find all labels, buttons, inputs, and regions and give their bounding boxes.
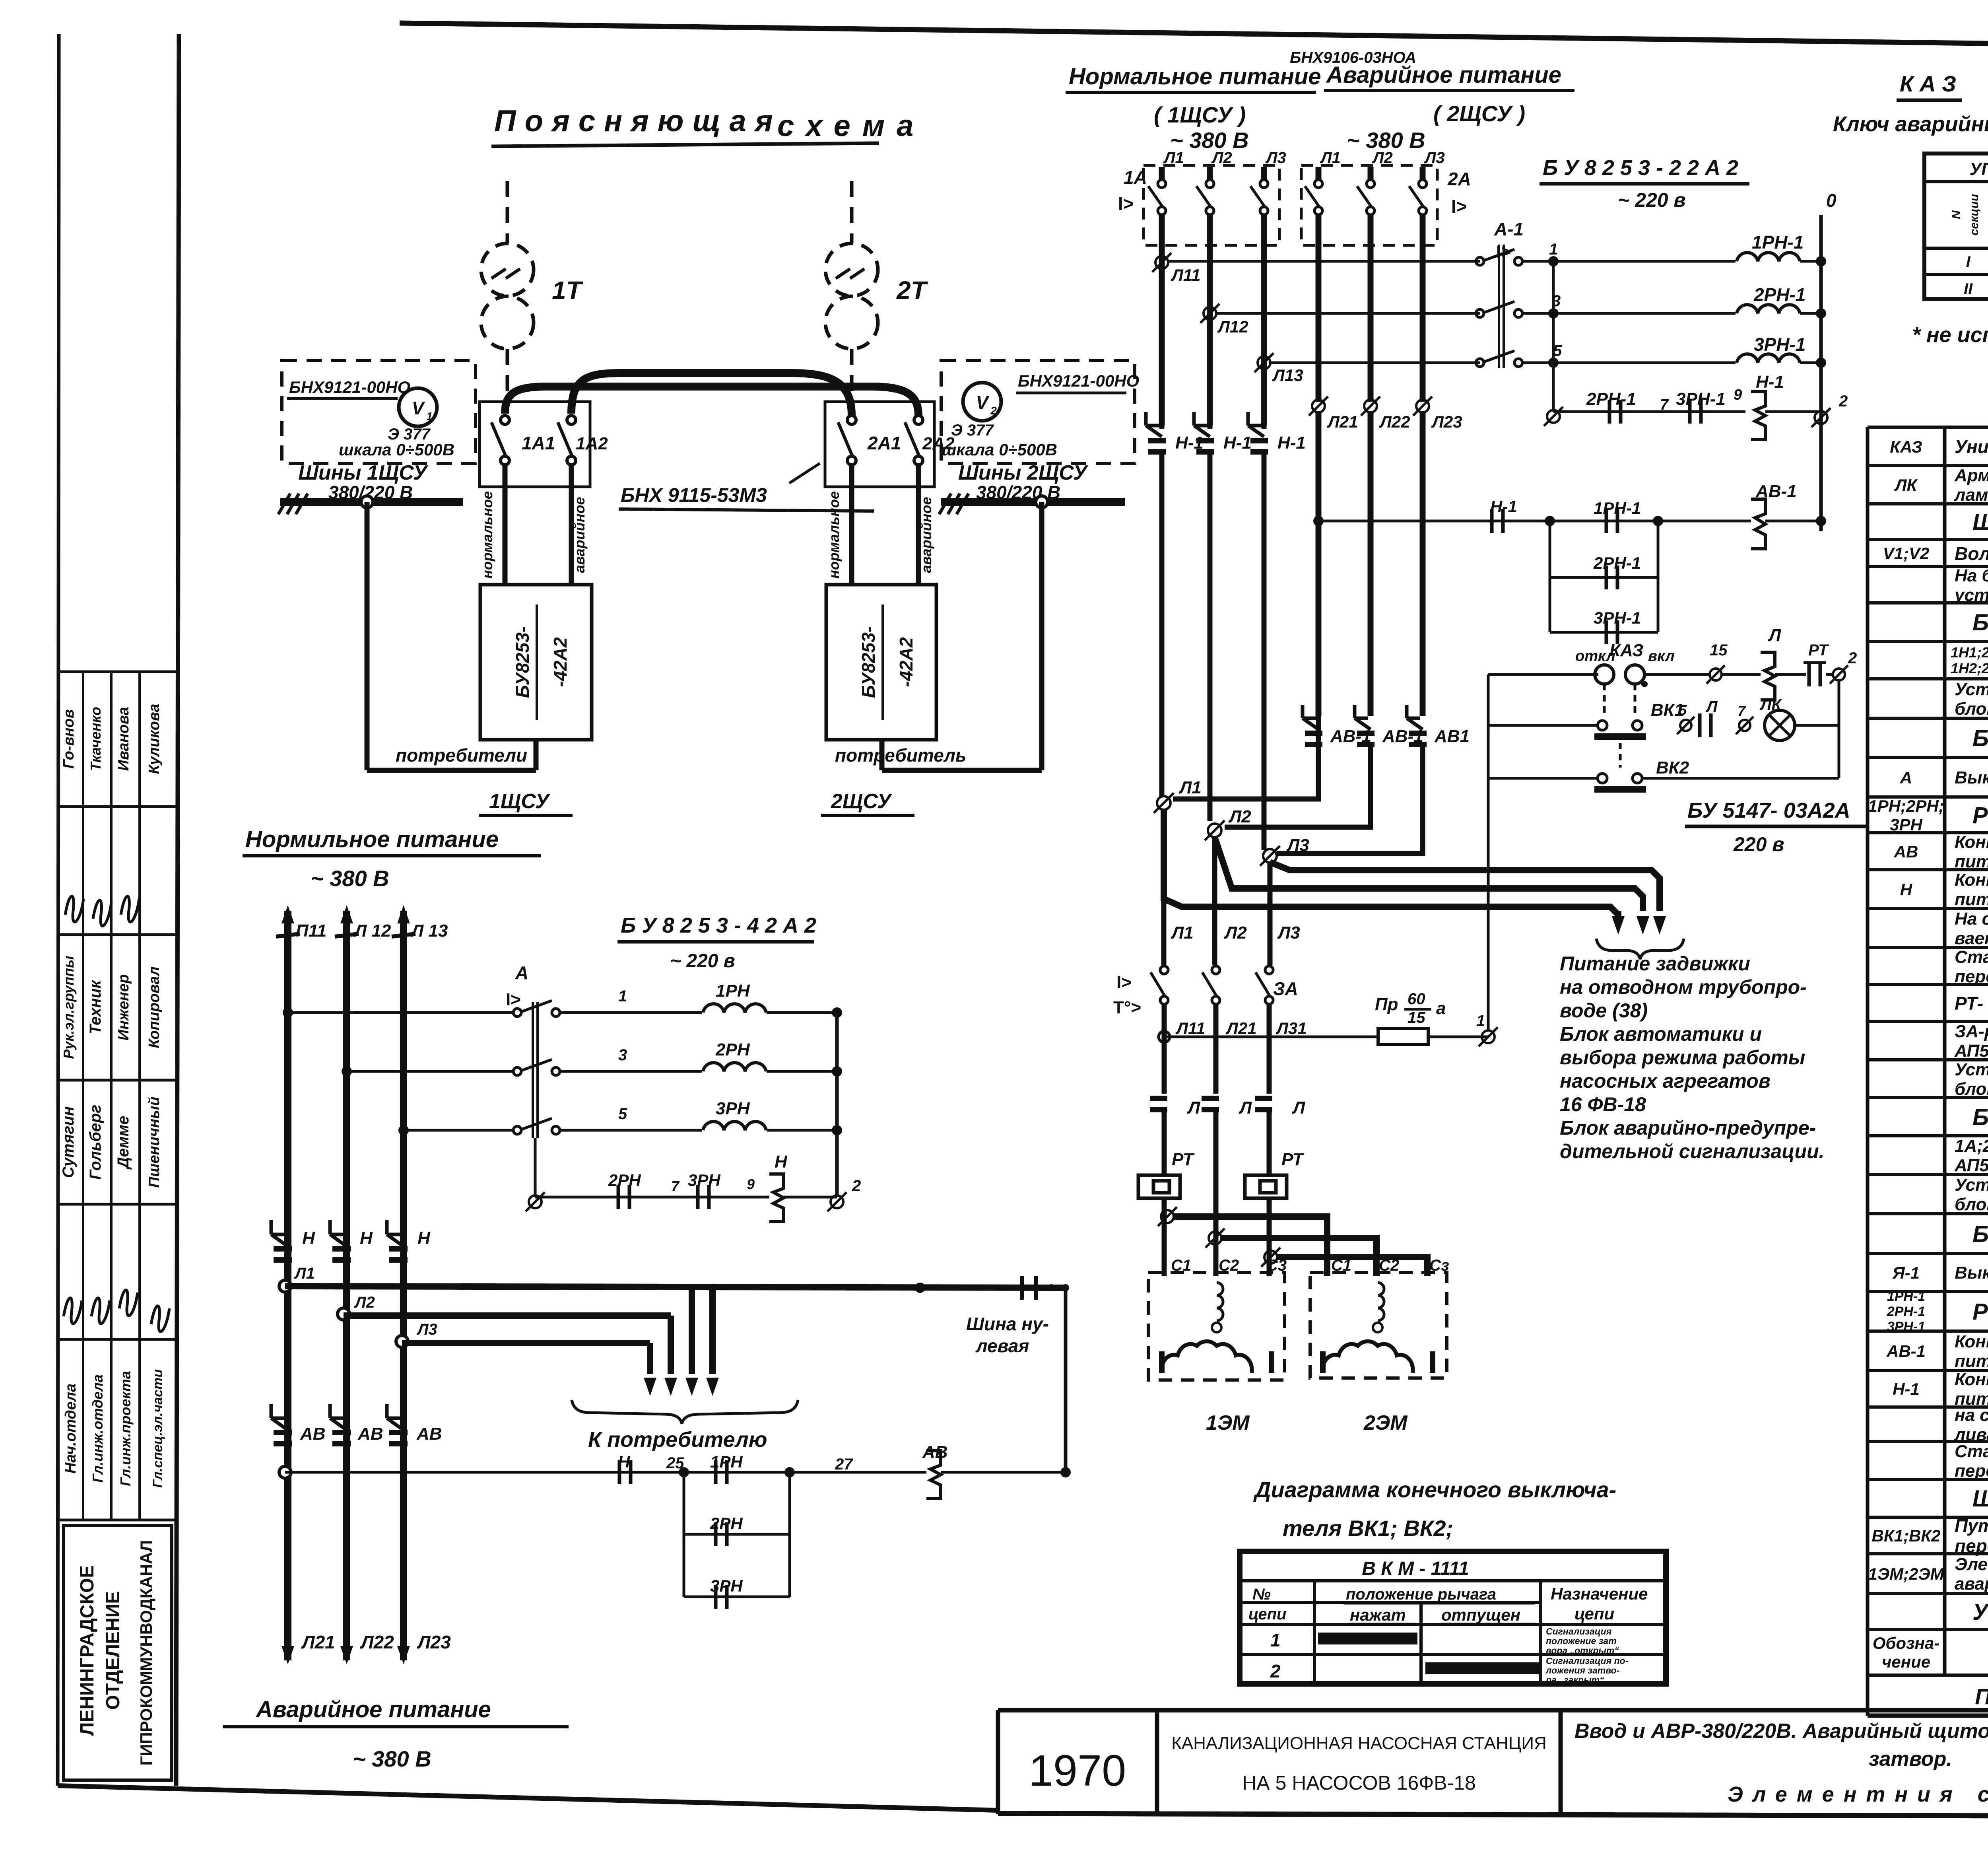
svg-text:БНХ9121-00НО: БНХ9121-00НО bbox=[289, 378, 410, 397]
svg-text:2: 2 bbox=[990, 404, 997, 417]
svg-text:РТ- Реле тепловые: РТ- Реле тепловые bbox=[1955, 993, 1988, 1014]
svg-text:Л21: Л21 bbox=[1225, 1019, 1257, 1038]
svg-text:1: 1 bbox=[426, 410, 433, 422]
svg-text:Универсальный переключатель: Универсальный переключатель bbox=[1955, 436, 1988, 457]
svg-text:вора „открыт“: вора „открыт“ bbox=[1546, 1645, 1619, 1656]
svg-text:1: 1 bbox=[618, 987, 627, 1005]
svg-text:ВК1;ВК2: ВК1;ВК2 bbox=[1872, 1526, 1940, 1545]
svg-text:Арматура для сигнальной: Арматура для сигнальной bbox=[1954, 466, 1988, 485]
svg-text:схема: схема bbox=[777, 109, 925, 143]
svg-text:1ЭМ;2ЭМ: 1ЭМ;2ЭМ bbox=[1868, 1565, 1944, 1583]
svg-text:* не используется: * не используется bbox=[1912, 323, 1988, 347]
svg-text:2: 2 bbox=[1848, 649, 1857, 667]
svg-text:Путевой малогабаритный: Путевой малогабаритный bbox=[1955, 1515, 1988, 1536]
svg-text:АВ: АВ bbox=[300, 1424, 326, 1444]
svg-text:В К М - 1111: В К М - 1111 bbox=[1362, 1558, 1469, 1579]
svg-text:потребитель: потребитель bbox=[835, 745, 966, 766]
svg-text:Л1: Л1 bbox=[1171, 923, 1194, 943]
svg-text:1Т: 1Т bbox=[552, 276, 584, 305]
svg-text:Щит управления: Щит управления bbox=[1972, 509, 1988, 535]
svg-text:ОТДЕЛЕНИЕ: ОТДЕЛЕНИЕ bbox=[103, 1591, 124, 1710]
svg-text:питания: питания bbox=[1955, 1351, 1988, 1371]
svg-text:лампы: лампы bbox=[1954, 485, 1988, 505]
svg-text:Блок управления: Блок управления bbox=[1972, 1221, 1988, 1247]
svg-text:Л23: Л23 bbox=[417, 1632, 451, 1652]
svg-text:потребители: потребители bbox=[396, 745, 527, 766]
svg-text:нажат: нажат bbox=[1350, 1605, 1406, 1624]
svg-text:Л2: Л2 bbox=[1228, 807, 1251, 826]
svg-text:ГИПРОКОММУНВОДКАНАЛ: ГИПРОКОММУНВОДКАНАЛ bbox=[137, 1540, 155, 1766]
svg-text:( 2ЩСУ ): ( 2ЩСУ ) bbox=[1433, 101, 1525, 126]
svg-text:вкл: вкл bbox=[1648, 648, 1675, 665]
svg-text:Рук.эл.группы: Рук.эл.группы bbox=[60, 956, 77, 1059]
svg-text:аварийное: аварийное bbox=[571, 497, 588, 573]
svg-text:положение рычага: положение рычага bbox=[1346, 1586, 1496, 1603]
svg-text:Вольтметр: Вольтметр bbox=[1955, 543, 1988, 564]
svg-text:Л1: Л1 bbox=[1163, 149, 1184, 167]
svg-text:БУ8253-: БУ8253- bbox=[512, 626, 533, 698]
svg-text:На блоке управления: На блоке управления bbox=[1955, 566, 1988, 585]
svg-text:Л22: Л22 bbox=[1379, 412, 1410, 431]
svg-text:Контактор аварийного: Контактор аварийного bbox=[1955, 832, 1988, 852]
svg-text:Уставки аппаратов на: Уставки аппаратов на bbox=[1955, 1060, 1988, 1079]
svg-text:АВ: АВ bbox=[416, 1424, 442, 1444]
svg-text:Л: Л bbox=[1292, 1098, 1305, 1118]
svg-text:Шина ну-: Шина ну- bbox=[966, 1314, 1049, 1334]
svg-text:Н-1: Н-1 bbox=[1223, 433, 1252, 453]
svg-text:Электромагнит. удержания: Электромагнит. удержания bbox=[1955, 1555, 1988, 1574]
svg-text:1ЭМ: 1ЭМ bbox=[1206, 1411, 1250, 1434]
svg-text:Уставки аппаратов на: Уставки аппаратов на bbox=[1955, 1175, 1988, 1195]
svg-text:АВ: АВ bbox=[1894, 842, 1918, 861]
svg-text:Н: Н bbox=[360, 1228, 373, 1248]
svg-text:РТ: РТ bbox=[1808, 641, 1829, 659]
svg-text:Л21: Л21 bbox=[301, 1632, 335, 1652]
svg-text:I: I bbox=[1966, 253, 1971, 271]
svg-text:-42А2: -42А2 bbox=[550, 637, 571, 687]
svg-text:Б У 8 2 5 3 - 2 2 А 2: Б У 8 2 5 3 - 2 2 А 2 bbox=[1543, 156, 1738, 180]
svg-text:Перечень электрооборудования: Перечень электрооборудования bbox=[1975, 1684, 1988, 1709]
svg-text:Сигнализация: Сигнализация bbox=[1546, 1626, 1612, 1637]
svg-text:~ 220 в: ~ 220 в bbox=[1618, 189, 1686, 211]
svg-text:I>: I> bbox=[1116, 973, 1132, 992]
svg-text:Шины 1ЩСУ: Шины 1ЩСУ bbox=[298, 461, 429, 484]
svg-text:Шины 2ЩСУ: Шины 2ЩСУ bbox=[958, 461, 1089, 484]
svg-text:А: А bbox=[515, 962, 528, 983]
svg-text:Поясняющая: Поясняющая bbox=[494, 104, 782, 138]
svg-text:I>: I> bbox=[506, 990, 521, 1009]
svg-text:Го-внов: Го-внов bbox=[60, 709, 77, 768]
svg-text:Уставки аппаратов на: Уставки аппаратов на bbox=[1955, 680, 1988, 699]
svg-text:на отводном трубопро-: на отводном трубопро- bbox=[1560, 976, 1807, 998]
svg-text:~ 380 В: ~ 380 В bbox=[353, 1746, 431, 1771]
svg-text:устанавливается:: устанавливается: bbox=[1954, 585, 1988, 605]
svg-text:5: 5 bbox=[1679, 702, 1687, 718]
svg-text:220 в: 220 в bbox=[1733, 833, 1784, 855]
svg-text:Блок аварийно-предупре-: Блок аварийно-предупре- bbox=[1560, 1117, 1816, 1139]
svg-text:Т°>: Т°> bbox=[1113, 998, 1141, 1017]
svg-text:БНХ9121-00НО: БНХ9121-00НО bbox=[1018, 371, 1139, 390]
svg-text:Л12: Л12 bbox=[1217, 317, 1248, 336]
svg-text:Сутягин: Сутягин bbox=[60, 1106, 77, 1178]
svg-text:а: а bbox=[1436, 999, 1446, 1018]
svg-text:Станция автоматического: Станция автоматического bbox=[1955, 947, 1988, 967]
svg-text:1970: 1970 bbox=[1029, 1746, 1126, 1795]
svg-text:Л1: Л1 bbox=[1320, 149, 1341, 167]
svg-text:9: 9 bbox=[747, 1176, 755, 1192]
svg-text:ЗА: ЗА bbox=[1273, 978, 1298, 999]
svg-text:ложения затво-: ложения затво- bbox=[1545, 1665, 1619, 1675]
svg-text:Ткаченко: Ткаченко bbox=[87, 707, 104, 771]
svg-text:блоке управления: блоке управления bbox=[1955, 1079, 1988, 1099]
svg-text:питания: питания bbox=[1955, 852, 1988, 871]
svg-text:АП50-3МТ: АП50-3МТ bbox=[1954, 1041, 1988, 1061]
svg-text:ВК2: ВК2 bbox=[1656, 758, 1689, 777]
svg-text:Станция автоматического: Станция автоматического bbox=[1955, 1442, 1988, 1461]
svg-text:II: II bbox=[1964, 280, 1973, 298]
svg-text:3РН: 3РН bbox=[688, 1171, 721, 1190]
svg-text:Демме: Демме bbox=[115, 1116, 132, 1170]
svg-text:Обозна-: Обозна- bbox=[1873, 1634, 1939, 1652]
svg-text:3РН: 3РН bbox=[1890, 815, 1923, 834]
svg-text:1А: 1А bbox=[1124, 167, 1147, 188]
svg-text:теля ВК1; ВК2;: теля ВК1; ВК2; bbox=[1283, 1516, 1453, 1541]
svg-text:Л2: Л2 bbox=[1224, 923, 1247, 943]
svg-text:15: 15 bbox=[1408, 1009, 1425, 1026]
svg-text:2РН-1: 2РН-1 bbox=[1887, 1304, 1925, 1319]
svg-text:1Н1;2Н1 Расцеп.абтомата А-3144: 1Н1;2Н1 Расцеп.абтомата А-3144 bbox=[1951, 644, 1988, 661]
svg-text:2РН: 2РН bbox=[608, 1171, 641, 1190]
svg-text:2А1: 2А1 bbox=[867, 433, 901, 453]
svg-text:ЗА-расцепитель автомата: ЗА-расцепитель автомата bbox=[1955, 1022, 1988, 1041]
svg-text:РТ: РТ bbox=[1281, 1150, 1305, 1169]
svg-text:А-1: А-1 bbox=[1494, 219, 1524, 239]
svg-text:V: V bbox=[412, 398, 425, 418]
svg-text:2ЩСУ: 2ЩСУ bbox=[831, 790, 893, 813]
svg-text:шкала 0÷500В: шкала 0÷500В bbox=[339, 440, 454, 459]
svg-text:насосных агрегатов: насосных агрегатов bbox=[1560, 1070, 1771, 1092]
svg-text:Н: Н bbox=[417, 1228, 431, 1248]
svg-text:2А2: 2А2 bbox=[922, 434, 955, 453]
svg-text:Л23: Л23 bbox=[1431, 412, 1462, 431]
svg-text:питания: питания bbox=[1955, 890, 1988, 909]
svg-text:Щит станции управления: Щит станции управления bbox=[1972, 1486, 1988, 1512]
svg-text:ЛК: ЛК bbox=[1894, 476, 1918, 494]
svg-text:Блок управления: Блок управления bbox=[1972, 1104, 1988, 1130]
svg-text:Пшеничный: Пшеничный bbox=[146, 1096, 163, 1188]
svg-text:Блок управления: Блок управления bbox=[1972, 725, 1988, 751]
svg-text:Н: Н bbox=[302, 1228, 315, 1248]
svg-text:Аварийное питание: Аварийное питание bbox=[255, 1697, 491, 1722]
svg-text:Контактор нормального: Контактор нормального bbox=[1955, 870, 1988, 890]
svg-text:П11: П11 bbox=[296, 921, 326, 941]
svg-text:Техник: Техник bbox=[87, 980, 104, 1034]
svg-text:V: V bbox=[976, 392, 990, 413]
svg-text:2Т: 2Т bbox=[896, 276, 928, 305]
svg-text:аварийных затворов: аварийных затворов bbox=[1955, 1574, 1988, 1594]
svg-text:7: 7 bbox=[1660, 397, 1669, 413]
svg-text:Гл.спец.эл.части: Гл.спец.эл.части bbox=[150, 1369, 165, 1488]
svg-text:Л21: Л21 bbox=[1327, 412, 1358, 431]
svg-text:1РН-1: 1РН-1 bbox=[1887, 1289, 1925, 1304]
svg-text:I>: I> bbox=[1451, 196, 1467, 217]
svg-text:нормальное: нормальное bbox=[826, 491, 842, 579]
svg-text:3: 3 bbox=[618, 1046, 627, 1064]
svg-text:Л1: Л1 bbox=[294, 1265, 315, 1282]
svg-text:К А З: К А З bbox=[1900, 71, 1956, 96]
svg-text:выбора режима работы: выбора режима работы bbox=[1560, 1046, 1805, 1069]
svg-text:60: 60 bbox=[1408, 990, 1425, 1008]
svg-text:блоке управления:: блоке управления: bbox=[1955, 699, 1988, 719]
svg-text:АВ-1: АВ-1 bbox=[1886, 1342, 1926, 1361]
svg-text:У механизма: У механизма bbox=[1972, 1599, 1988, 1625]
svg-text:аварийное: аварийное bbox=[918, 497, 934, 573]
svg-text:АВ1: АВ1 bbox=[1434, 727, 1470, 746]
svg-text:3РН: 3РН bbox=[716, 1099, 750, 1118]
svg-text:дительной сигнализации.: дительной сигнализации. bbox=[1560, 1140, 1825, 1162]
svg-text:Л3: Л3 bbox=[1277, 923, 1300, 943]
svg-text:Блок управления: Блок управления bbox=[1972, 610, 1988, 636]
svg-text:V1;V2: V1;V2 bbox=[1883, 544, 1930, 563]
svg-text:блоке управления: блоке управления bbox=[1955, 1195, 1988, 1214]
svg-text:Л11: Л11 bbox=[1175, 1019, 1205, 1038]
svg-text:Н: Н bbox=[775, 1152, 788, 1172]
svg-text:воде (38): воде (38) bbox=[1560, 999, 1648, 1022]
svg-text:9: 9 bbox=[1734, 387, 1742, 403]
svg-text:Нач.отдела: Нач.отдела bbox=[62, 1384, 79, 1473]
svg-text:1А2: 1А2 bbox=[576, 434, 608, 453]
svg-text:Л13: Л13 bbox=[1272, 366, 1303, 385]
svg-text:Л: Л bbox=[1239, 1098, 1252, 1118]
svg-text:I>: I> bbox=[1118, 193, 1134, 214]
svg-text:переключения на резерв: переключения на резерв bbox=[1955, 1461, 1988, 1481]
svg-text:2: 2 bbox=[1839, 393, 1848, 410]
svg-text:шкала 0÷500В: шкала 0÷500В bbox=[942, 440, 1057, 459]
svg-text:КАЗ: КАЗ bbox=[1890, 437, 1922, 456]
svg-text:Л3: Л3 bbox=[416, 1321, 437, 1338]
svg-text:Реле нулевое: Реле нулевое bbox=[1972, 803, 1988, 828]
svg-text:2РН-1: 2РН-1 bbox=[1753, 284, 1806, 305]
svg-text:Л 13: Л 13 bbox=[410, 921, 448, 941]
svg-text:секции: секции bbox=[1968, 194, 1981, 236]
svg-text:1РН;2РН;: 1РН;2РН; bbox=[1868, 797, 1944, 815]
svg-text:вается:: вается: bbox=[1955, 929, 1988, 948]
svg-text:15: 15 bbox=[1710, 641, 1728, 659]
svg-text:КАНАЛИЗАЦИОННАЯ НАСОСНАЯ СТА: КАНАЛИЗАЦИОННАЯ НАСОСНАЯ СТАНЦИЯ bbox=[1171, 1734, 1547, 1753]
svg-text:-42А2: -42А2 bbox=[896, 637, 916, 687]
svg-text:Иванова: Иванова bbox=[115, 707, 132, 771]
svg-text:Н-1: Н-1 bbox=[1893, 1380, 1920, 1398]
svg-text:АП50-3МТ: АП50-3МТ bbox=[1954, 1156, 1988, 1175]
svg-text:Инженер: Инженер bbox=[115, 974, 132, 1041]
svg-text:27: 27 bbox=[835, 1456, 853, 1473]
svg-text:Контактор нормального: Контактор нормального bbox=[1955, 1370, 1988, 1389]
svg-text:Э 377: Э 377 bbox=[951, 422, 994, 439]
svg-text:Л3: Л3 bbox=[1424, 149, 1445, 167]
svg-text:РТ: РТ bbox=[1172, 1150, 1195, 1169]
svg-text:3РН-1: 3РН-1 bbox=[1754, 334, 1806, 355]
svg-text:1ЩСУ: 1ЩСУ bbox=[489, 790, 551, 813]
svg-text:1: 1 bbox=[1270, 1630, 1281, 1650]
svg-text:Л1: Л1 bbox=[1178, 778, 1202, 797]
svg-text:3РН-1: 3РН-1 bbox=[1887, 1319, 1925, 1334]
svg-text:переключатель: переключатель bbox=[1955, 1536, 1988, 1556]
svg-text:Пр: Пр bbox=[1375, 995, 1398, 1014]
svg-text:БНХ 9115-53М3: БНХ 9115-53М3 bbox=[621, 484, 767, 506]
svg-text:N: N bbox=[1950, 210, 1963, 219]
svg-text:ЛЕНИНГРАДСКОЕ: ЛЕНИНГРАДСКОЕ bbox=[77, 1565, 98, 1736]
svg-text:2РН: 2РН bbox=[715, 1040, 750, 1059]
svg-text:2: 2 bbox=[1270, 1661, 1281, 1681]
svg-text:Л3: Л3 bbox=[1286, 836, 1309, 855]
svg-text:левая: левая bbox=[975, 1335, 1029, 1356]
svg-text:1РН-1: 1РН-1 bbox=[1752, 232, 1804, 253]
svg-text:Ввод и АВР-380/220В. Аварийн: Ввод и АВР-380/220В. Аварийный щитовой bbox=[1574, 1720, 1988, 1743]
svg-text:Л2: Л2 bbox=[1372, 149, 1393, 167]
svg-text:Копировал: Копировал bbox=[146, 966, 163, 1048]
svg-text:7: 7 bbox=[671, 1178, 680, 1194]
svg-text:отпущен: отпущен bbox=[1441, 1605, 1520, 1624]
svg-text:2А: 2А bbox=[1447, 169, 1471, 189]
svg-text:Л31: Л31 bbox=[1276, 1019, 1307, 1038]
svg-text:Л: Л bbox=[1768, 626, 1781, 645]
svg-text:5: 5 bbox=[618, 1105, 627, 1123]
svg-text:Назначение: Назначение bbox=[1551, 1584, 1648, 1603]
svg-text:К потребителю: К потребителю bbox=[588, 1428, 767, 1452]
svg-text:0: 0 bbox=[1826, 190, 1837, 211]
svg-text:2: 2 bbox=[852, 1177, 861, 1195]
svg-text:№: № bbox=[1252, 1586, 1271, 1603]
svg-text:1А1: 1А1 bbox=[522, 433, 555, 453]
svg-text:Нормильное питание: Нормильное питание bbox=[245, 826, 499, 852]
svg-text:1: 1 bbox=[1549, 241, 1558, 258]
svg-text:Л3: Л3 bbox=[1265, 149, 1286, 167]
svg-text:Б У 8 2 5 3 - 4 2 А 2: Б У 8 2 5 3 - 4 2 А 2 bbox=[621, 914, 816, 937]
svg-text:Элементния схема: Элементния схема bbox=[1728, 1782, 1988, 1806]
svg-text:БНХ9106-03НОА: БНХ9106-03НОА bbox=[1290, 49, 1416, 66]
svg-text:Выключатель автоматический: Выключатель автоматический bbox=[1955, 1263, 1988, 1283]
svg-text:Реле нулевое: Реле нулевое bbox=[1972, 1299, 1988, 1325]
svg-text:~ 220 в: ~ 220 в bbox=[670, 950, 735, 972]
svg-text:Гл.инж.проекта: Гл.инж.проекта bbox=[117, 1371, 134, 1486]
svg-text:Нормальное питание: Нормальное питание bbox=[1069, 64, 1321, 89]
svg-text:Н: Н bbox=[1900, 880, 1913, 899]
svg-text:на станции устанав-: на станции устанав- bbox=[1955, 1405, 1988, 1425]
svg-text:Я-1: Я-1 bbox=[1892, 1263, 1920, 1282]
svg-text:1Н2;2Н2 Расцеп.абтомата А-3134: 1Н2;2Н2 Расцеп.абтомата А-3134 bbox=[1951, 660, 1988, 676]
svg-text:А: А bbox=[1900, 768, 1912, 787]
svg-text:ра „закрыт“: ра „закрыт“ bbox=[1545, 1675, 1604, 1685]
svg-text:Диаграмма конечного выключа-: Диаграмма конечного выключа- bbox=[1253, 1477, 1616, 1502]
svg-text:Блок автоматики и: Блок автоматики и bbox=[1560, 1023, 1762, 1045]
svg-text:Гл.инж.отдела: Гл.инж.отдела bbox=[89, 1374, 106, 1483]
svg-text:Гольберг: Гольберг bbox=[87, 1105, 104, 1180]
svg-text:Л2: Л2 bbox=[1211, 149, 1232, 167]
svg-text:1: 1 bbox=[1476, 1012, 1485, 1030]
svg-text:Питание задвижки: Питание задвижки bbox=[1560, 952, 1750, 975]
svg-text:цепи: цепи bbox=[1574, 1604, 1614, 1623]
svg-text:переключения на резерв: переключения на резерв bbox=[1955, 967, 1988, 986]
svg-text:положение зат: положение зат bbox=[1546, 1636, 1617, 1646]
svg-text:Л: Л bbox=[1187, 1098, 1200, 1118]
svg-text:16 ФВ-18: 16 ФВ-18 bbox=[1560, 1093, 1646, 1116]
svg-text:Л11: Л11 bbox=[1171, 266, 1200, 284]
svg-text:затвор.: затвор. bbox=[1869, 1747, 1952, 1771]
svg-text:Куликова: Куликова bbox=[146, 704, 163, 774]
svg-text:БУ8253-: БУ8253- bbox=[858, 626, 879, 698]
svg-text:АВ: АВ bbox=[357, 1424, 383, 1444]
svg-text:Н-1: Н-1 bbox=[1277, 433, 1306, 453]
svg-text:Л: Л bbox=[1705, 698, 1718, 715]
svg-text:цепи: цепи bbox=[1248, 1605, 1286, 1623]
svg-text:Л2: Л2 bbox=[354, 1294, 375, 1311]
svg-text:На станции устанавли-: На станции устанавли- bbox=[1955, 909, 1988, 929]
svg-text:1РН: 1РН bbox=[716, 981, 750, 1001]
svg-text:Ключ аварийных затворов: Ключ аварийных затворов bbox=[1833, 112, 1988, 136]
svg-text:( 1ЩСУ ): ( 1ЩСУ ) bbox=[1154, 102, 1246, 127]
svg-text:Контактор аварийного: Контактор аварийного bbox=[1955, 1332, 1988, 1351]
svg-text:1А;2А;Расцепитель автомата: 1А;2А;Расцепитель автомата bbox=[1955, 1136, 1988, 1156]
svg-text:нормальное: нормальное bbox=[479, 491, 495, 579]
svg-text:Н-1: Н-1 bbox=[1756, 372, 1784, 392]
svg-text:Л 12: Л 12 bbox=[353, 921, 391, 941]
svg-text:2ЭМ: 2ЭМ bbox=[1363, 1411, 1408, 1434]
svg-text:Сигнализация по-: Сигнализация по- bbox=[1546, 1656, 1628, 1666]
svg-text:Л22: Л22 bbox=[360, 1632, 394, 1652]
svg-text:БУ 5147- 03А2А: БУ 5147- 03А2А bbox=[1687, 799, 1850, 822]
svg-text:НА 5 НАСОСОВ 16ФВ-18: НА 5 НАСОСОВ 16ФВ-18 bbox=[1242, 1772, 1476, 1794]
svg-text:чение: чение bbox=[1882, 1652, 1930, 1671]
svg-text:КАЗ: КАЗ bbox=[1609, 641, 1643, 660]
svg-text:7: 7 bbox=[1738, 703, 1746, 719]
svg-text:~ 380 В: ~ 380 В bbox=[311, 866, 389, 891]
svg-text:Выключить автоматический: Выключить автоматический bbox=[1955, 768, 1988, 787]
svg-text:УП5311- И3: УП5311- И3 bbox=[1969, 159, 1988, 179]
